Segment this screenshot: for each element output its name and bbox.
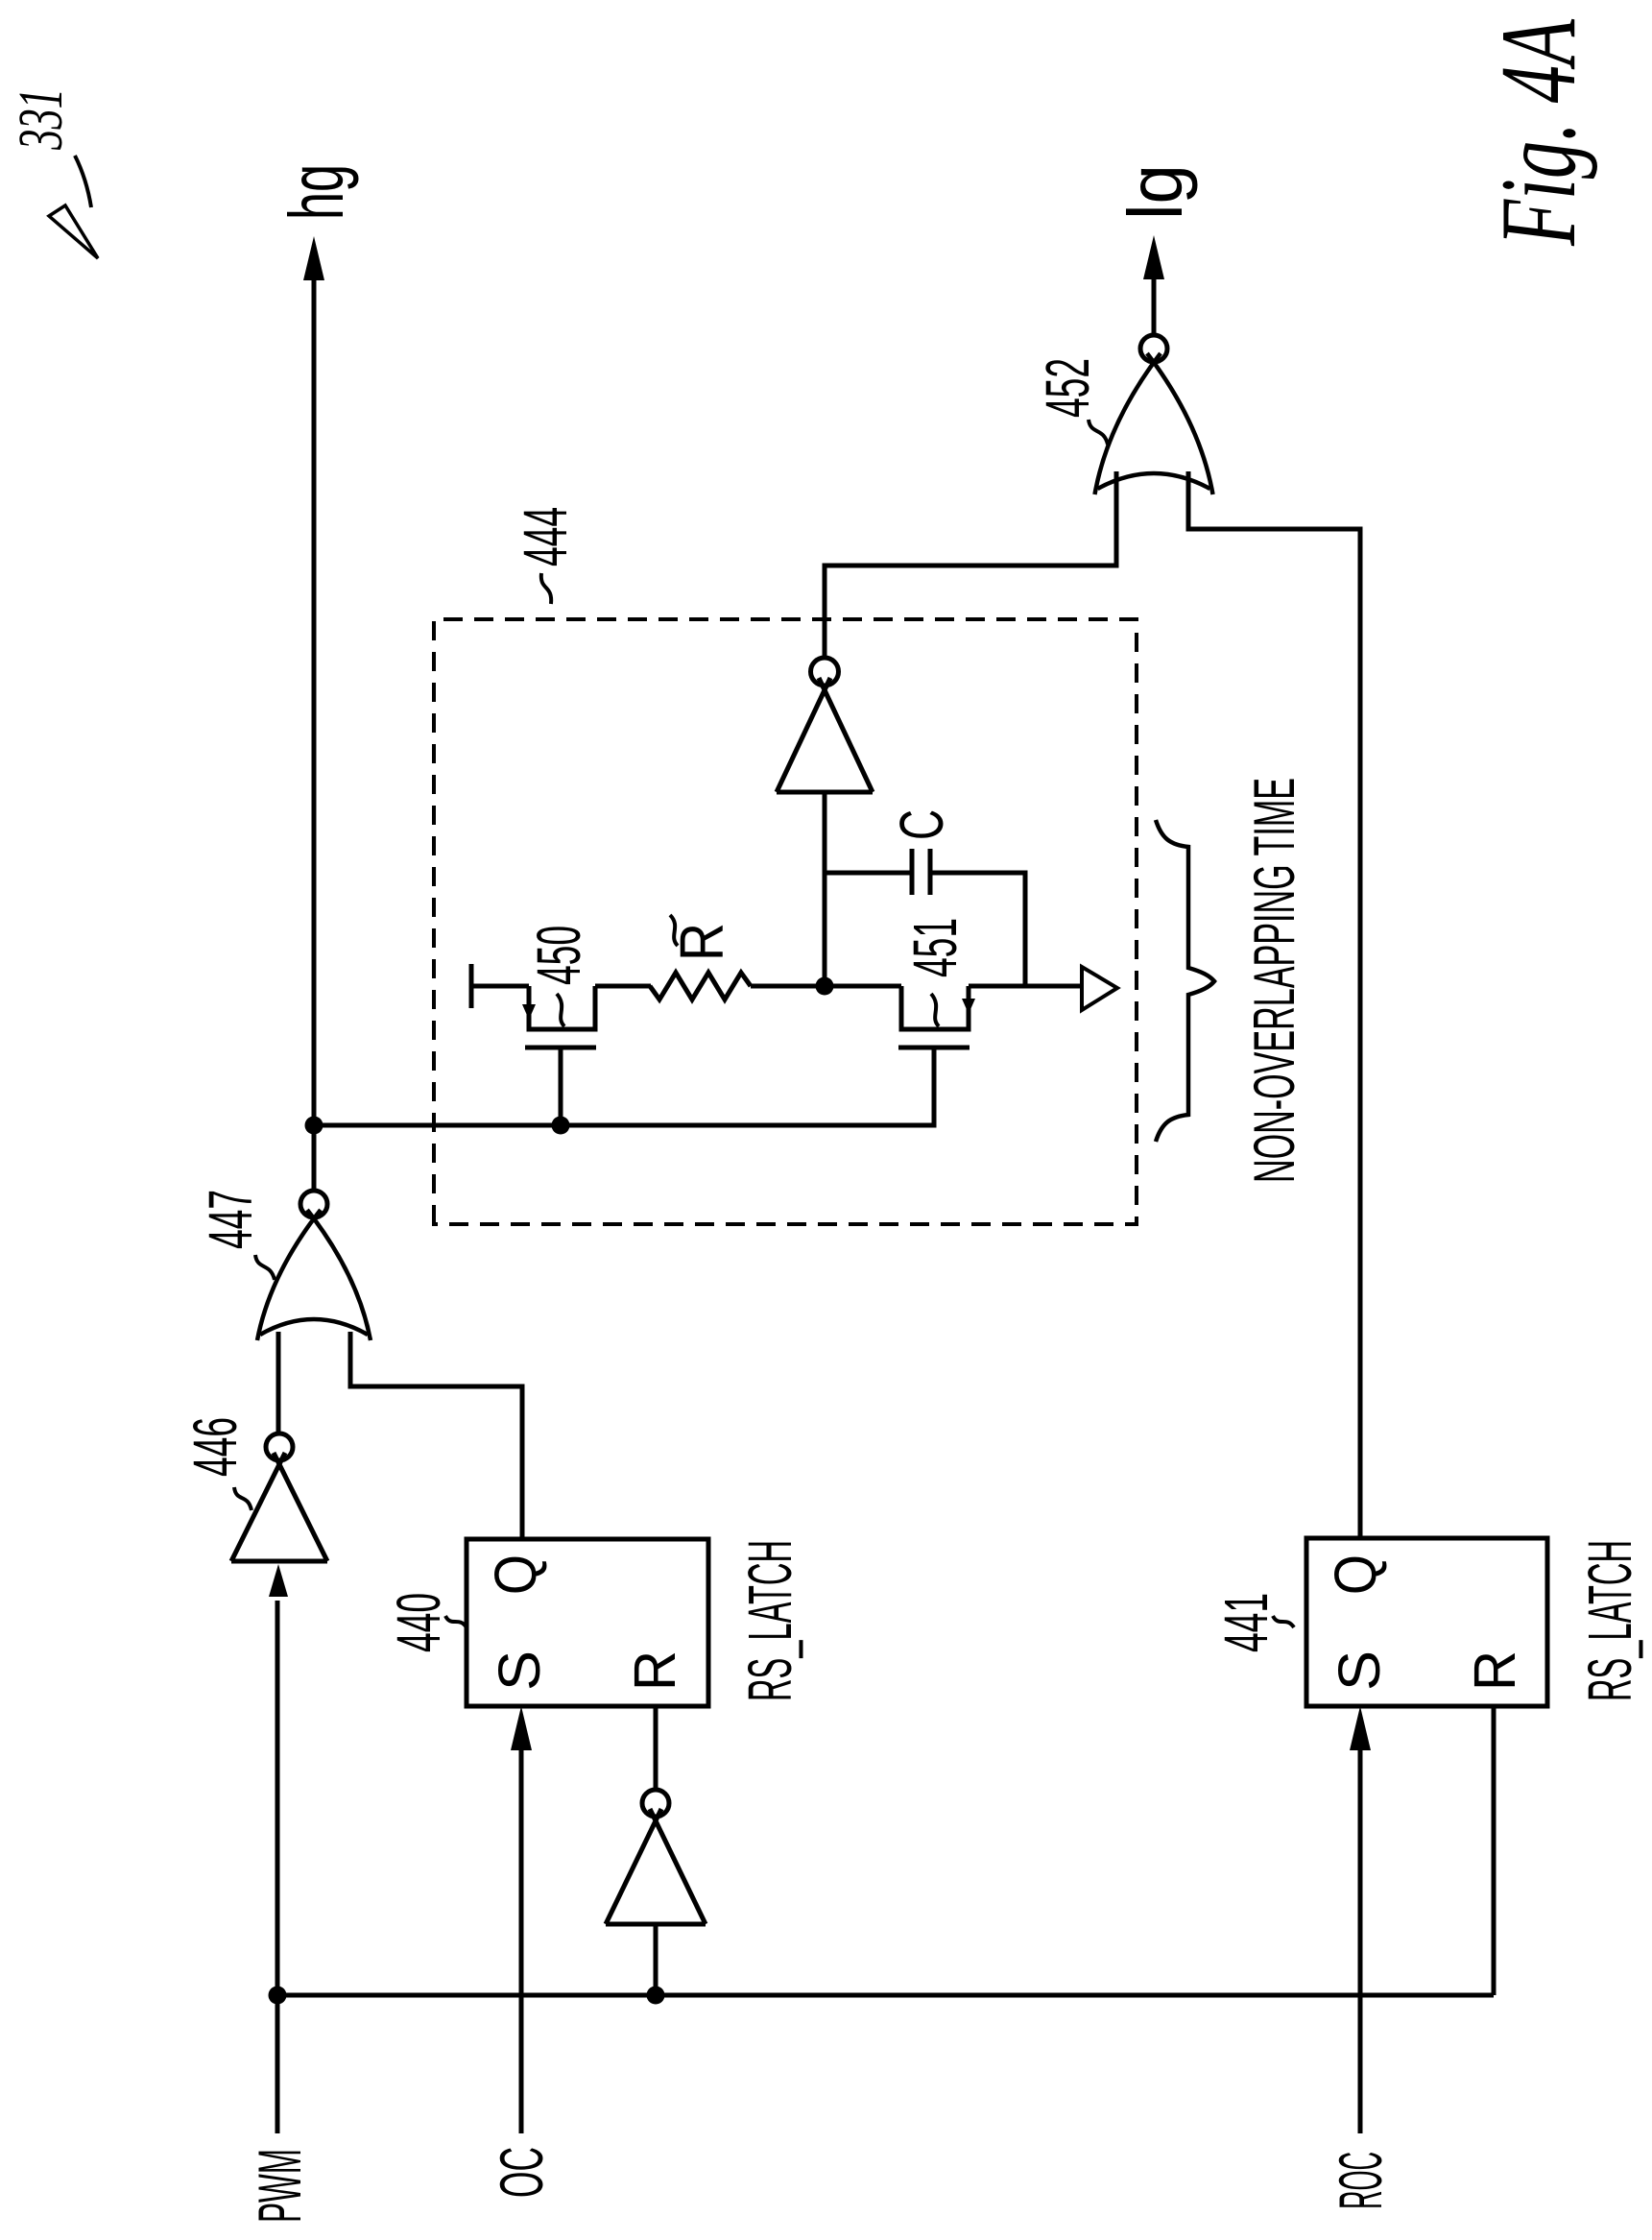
- label PWM: [247, 2149, 314, 2223]
- node gate 450 junction: [552, 1117, 570, 1135]
- label 440: [384, 1593, 467, 1652]
- svg-text:RS_LATCH: RS_LATCH: [1575, 1540, 1644, 1701]
- label NON-OVERLAPPING TIME: [1242, 778, 1306, 1183]
- wire OC lead: [519, 1748, 524, 2133]
- wire 451 drain down: [969, 984, 1082, 989]
- wire 450 to resistor: [595, 984, 651, 989]
- dashed box 444: [434, 619, 1137, 1224]
- arrow into S of latch 440: [511, 1706, 532, 1750]
- node inverter junction: [647, 1987, 665, 2005]
- svg-text:331: 331: [6, 88, 76, 151]
- wire NOR 452 output: [1152, 269, 1157, 335]
- svg-text:S: S: [487, 1650, 552, 1691]
- svg-text:446: 446: [180, 1417, 250, 1477]
- wire 446 to NOR 447: [276, 1332, 281, 1434]
- RS latch 441 box: [1306, 1538, 1547, 1706]
- inverter to R of 440: [606, 1790, 706, 1924]
- open arrow out: [1082, 967, 1117, 1010]
- pin R of 440: [622, 1650, 687, 1691]
- svg-text:ROC: ROC: [1328, 2152, 1395, 2209]
- label RS_LATCH 440: [735, 1540, 804, 1701]
- arrow into buffer 446: [269, 1564, 288, 1597]
- wire node to inverter: [823, 792, 827, 986]
- svg-text:452: 452: [1033, 358, 1102, 418]
- wire PWM lead: [275, 1601, 280, 2133]
- svg-text:451: 451: [900, 918, 970, 977]
- svg-text:447: 447: [196, 1190, 265, 1249]
- label 452: [1033, 358, 1108, 445]
- wire Q of 440 to NOR 447 input: [350, 1332, 522, 1539]
- label 451: [900, 918, 970, 1026]
- wire supply to 450: [471, 984, 529, 989]
- transistor 450 supply bar: [469, 964, 474, 1008]
- svg-text:R: R: [622, 1650, 687, 1691]
- brace non-overlapping time: [1156, 820, 1214, 1142]
- pin S of 440: [487, 1650, 552, 1691]
- NOR gate 447: [257, 1191, 371, 1340]
- RS latch 440 box: [467, 1539, 708, 1706]
- NOR gate 452: [1095, 335, 1213, 494]
- label 441: [1211, 1593, 1294, 1652]
- wire cap bottom: [930, 873, 1025, 986]
- svg-text:R: R: [1462, 1650, 1527, 1691]
- svg-text:Q: Q: [483, 1554, 548, 1595]
- wire resistor to node: [751, 984, 901, 989]
- svg-text:Q: Q: [1323, 1554, 1388, 1595]
- transistor 451 channel: [901, 986, 969, 1029]
- svg-text:lg: lg: [1113, 164, 1198, 220]
- svg-text:450: 450: [524, 926, 593, 985]
- pin S of 441: [1327, 1650, 1392, 1691]
- transistor 450 channel: [529, 986, 595, 1029]
- wire hg output: [312, 269, 317, 1125]
- figure label Fig. 4A: [1479, 19, 1598, 247]
- svg-text:C: C: [887, 809, 956, 840]
- label lg: [1113, 164, 1198, 220]
- label C: [887, 809, 956, 840]
- wire inverter to R pin: [654, 1706, 658, 1790]
- svg-text:Fig. 4A: Fig. 4A: [1479, 19, 1598, 247]
- arrow hg: [303, 236, 324, 280]
- label 444: [511, 507, 580, 604]
- svg-text:440: 440: [384, 1593, 453, 1652]
- transistor 450 arrow: [522, 1004, 536, 1020]
- resistor R: [650, 973, 751, 1000]
- arrow lg: [1143, 235, 1164, 279]
- label 331: [6, 88, 76, 151]
- wire ROC lead: [1358, 1748, 1363, 2133]
- node hg junction: [305, 1117, 323, 1135]
- wire inverter to NOR 452: [825, 471, 1116, 658]
- leader 331: [49, 156, 98, 258]
- label R: [667, 915, 736, 961]
- node PWM junction: [269, 1987, 287, 2005]
- label ROC: [1328, 2152, 1395, 2209]
- capacitor C plates: [912, 849, 930, 895]
- svg-text:R: R: [667, 923, 736, 961]
- label 447: [196, 1190, 275, 1280]
- wire bus to inverter: [654, 1924, 658, 1995]
- svg-text:444: 444: [511, 507, 580, 566]
- node delay: [816, 977, 834, 996]
- svg-text:PWM: PWM: [247, 2149, 314, 2223]
- svg-text:NON-OVERLAPPING TIME: NON-OVERLAPPING TIME: [1242, 778, 1306, 1183]
- pin Q of 440: [483, 1554, 548, 1595]
- label OC: [489, 2147, 556, 2198]
- svg-text:441: 441: [1211, 1593, 1281, 1652]
- pin Q of 441: [1323, 1554, 1388, 1595]
- label 446: [180, 1417, 251, 1510]
- svg-text:OC: OC: [489, 2147, 556, 2198]
- label RS_LATCH 441: [1575, 1540, 1644, 1701]
- label 450: [524, 926, 593, 1026]
- wire NOR 447 output: [312, 1125, 317, 1191]
- label hg: [274, 164, 359, 220]
- svg-text:S: S: [1327, 1650, 1392, 1691]
- wire cap top: [825, 871, 912, 876]
- buffer 446: [231, 1433, 327, 1561]
- svg-text:RS_LATCH: RS_LATCH: [735, 1540, 804, 1701]
- inverter in 444: [777, 658, 873, 792]
- arrow into S of latch 441: [1350, 1706, 1371, 1750]
- pin R of 441: [1462, 1650, 1527, 1691]
- wire 441 Q to NOR 452: [1188, 471, 1360, 1538]
- svg-text:hg: hg: [274, 164, 359, 220]
- transistor 450 gate bar: [525, 1046, 596, 1050]
- wire bus to R pin of latch 441: [1492, 1706, 1496, 1995]
- transistor 451 gate bar: [898, 1046, 970, 1050]
- wire gate bus: [314, 1048, 934, 1125]
- wire left bus: [277, 1993, 1494, 1998]
- transistor 451 arrow: [962, 999, 975, 1014]
- wire to gate of 450: [559, 1048, 563, 1125]
